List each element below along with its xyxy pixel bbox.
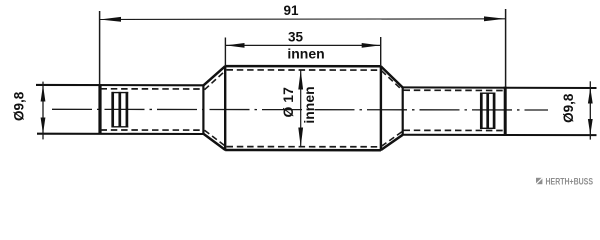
centerline axis: [52, 108, 548, 111]
right cone bottom diagonal: [381, 135, 403, 150]
dim d9.8 left arrow up: [41, 85, 46, 102]
right inner wall dashed top: [404, 89, 505, 91]
dim d9.8 left arrow down: [41, 118, 46, 135]
left cone tube cap: [202, 85, 204, 135]
right cone dashed inner bottom: [382, 131, 404, 146]
dim 35 extension line right: [380, 37, 382, 66]
dim d9.8 right line: [589, 81, 591, 139]
dim 91 line: [100, 18, 505, 21]
dim 35 arrow right: [362, 43, 381, 48]
right clamp detail: [480, 93, 495, 130]
left cone top diagonal: [203, 66, 225, 85]
left clamp detail: [112, 92, 129, 128]
dim d17 arrow down: [298, 128, 303, 148]
svg-text:Ø 17: Ø 17: [280, 87, 296, 118]
dim 35 arrow left: [226, 43, 245, 48]
left cone bottom diagonal: [203, 134, 225, 150]
body inner dashed top: [227, 69, 380, 71]
right tube top line: [403, 86, 597, 89]
right inner wall dashed bottom: [404, 129, 505, 131]
dim d17 line: [300, 70, 302, 147]
logo herth+buss: [536, 176, 593, 186]
body bottom line: [225, 149, 381, 152]
right sleeve step line: [504, 87, 507, 136]
dim 35 line: [226, 44, 380, 46]
right cone top diagonal: [381, 66, 403, 87]
dim 91 arrow left: [100, 17, 121, 22]
left sleeve step line: [98, 84, 101, 134]
left tube bottom line: [37, 133, 203, 135]
svg-text:HERTH+BUSS: HERTH+BUSS: [546, 176, 594, 186]
dim 91 extension line right: [505, 9, 507, 87]
svg-text:35: 35: [288, 29, 304, 44]
svg-text:Ø9,8: Ø9,8: [12, 91, 27, 121]
dim d9.8 right arrow up: [588, 88, 593, 104]
body inner dashed bottom: [227, 146, 380, 148]
dim d9.8 right arrow down: [588, 119, 593, 135]
right tube bottom line: [403, 134, 597, 136]
dim 91 extension line left: [99, 11, 101, 85]
dim 35 extension line left: [224, 38, 226, 67]
right cone tube cap: [402, 87, 404, 135]
left inner wall dashed bottom: [101, 129, 203, 131]
left cone dashed inner top: [205, 71, 226, 90]
left cone dashed inner bottom: [205, 130, 226, 146]
svg-text:innen: innen: [301, 86, 317, 123]
left tube top line: [36, 84, 203, 87]
dim d9.8 left line: [42, 82, 44, 140]
body left cap: [224, 66, 226, 151]
svg-text:Ø9,8: Ø9,8: [561, 93, 576, 123]
dim d17 arrow up: [298, 70, 303, 90]
left inner wall dashed top: [101, 88, 203, 90]
right cone dashed inner top: [382, 71, 404, 91]
svg-text:91: 91: [283, 3, 299, 18]
svg-text:innen: innen: [287, 45, 324, 61]
body top line: [225, 65, 381, 68]
body right cap: [380, 66, 382, 151]
dim 91 arrow right: [484, 16, 505, 21]
